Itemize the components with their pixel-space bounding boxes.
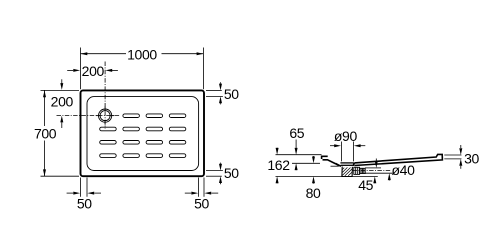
svg-text:80: 80 <box>306 185 321 201</box>
svg-text:162: 162 <box>267 157 290 173</box>
svg-text:700: 700 <box>34 126 57 142</box>
svg-text:ø40: ø40 <box>391 162 415 178</box>
svg-text:50: 50 <box>194 196 209 212</box>
svg-text:50: 50 <box>224 86 239 102</box>
svg-text:1000: 1000 <box>127 46 157 62</box>
svg-text:45: 45 <box>358 177 373 193</box>
svg-text:ø90: ø90 <box>334 128 358 144</box>
svg-text:50: 50 <box>77 196 92 212</box>
svg-text:65: 65 <box>289 125 304 141</box>
svg-text:30: 30 <box>464 150 479 166</box>
svg-text:200: 200 <box>51 93 74 109</box>
svg-text:50: 50 <box>224 165 239 181</box>
svg-text:200: 200 <box>82 63 105 79</box>
